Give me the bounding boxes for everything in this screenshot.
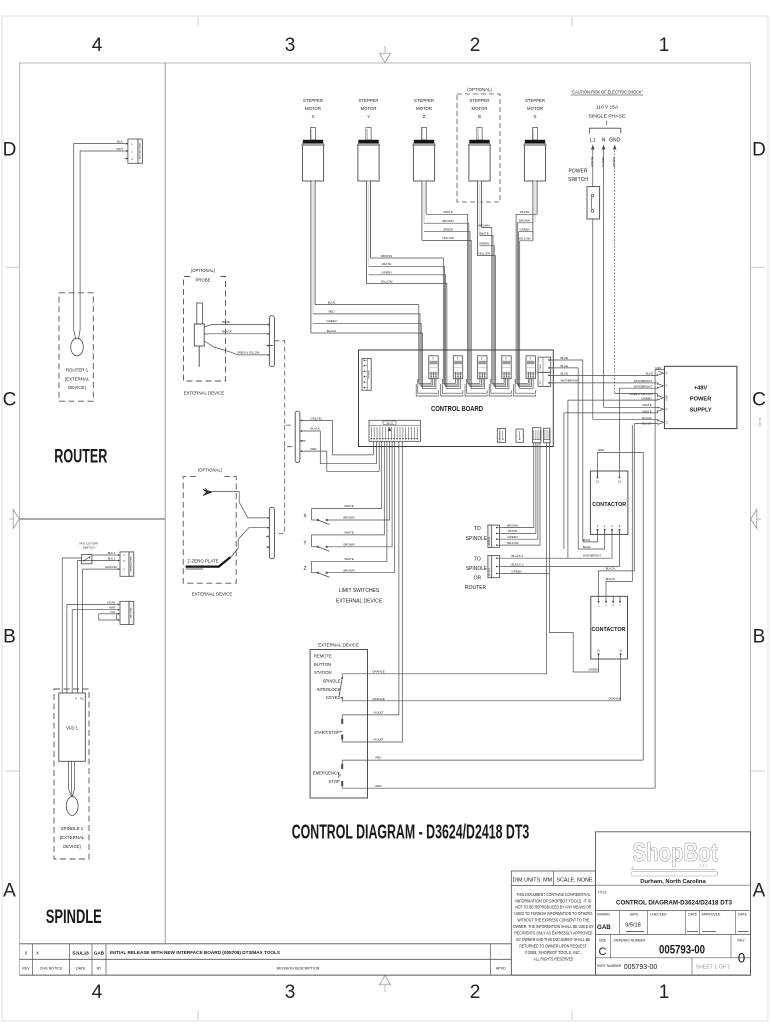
svg-text:NOT TO BE REPRODUCED BY ANY ME: NOT TO BE REPRODUCED BY ANY MEANS OR	[515, 905, 591, 910]
wire GREEN to PS GND	[568, 399, 658, 401]
wire BLACK PS to contactor2	[599, 424, 635, 597]
motor cable from stepper at x=479.5	[477, 181, 481, 256]
svg-text:Z: Z	[303, 566, 306, 572]
svg-text:EXTERNAL DEVICE: EXTERNAL DEVICE	[336, 599, 383, 605]
svg-text:USED TO FURNISH INFORMATION TO: USED TO FURNISH INFORMATION TO OTHERS	[514, 911, 592, 916]
connector J-to-spindle-router	[488, 555, 500, 577]
revision header row	[22, 967, 506, 971]
wire GREEN stepper fan	[424, 228, 470, 351]
probe optional label	[191, 268, 216, 283]
power supply pin +V	[658, 371, 669, 375]
wire BROWN stepper S fan	[517, 219, 533, 350]
svg-text:SPINDLE: SPINDLE	[466, 536, 488, 542]
zone tick marks bottom margin	[198, 1010, 572, 1020]
svg-text:GREEN: GREEN	[443, 228, 453, 232]
svg-text:RED: RED	[328, 310, 334, 314]
connector J-spindle-1 (3-pin)	[117, 552, 134, 576]
svg-text:Z: Z	[423, 114, 426, 119]
svg-text:BLACK: BLACK	[311, 426, 321, 430]
svg-text:STEPPER: STEPPER	[525, 98, 545, 103]
svg-text:POWER: POWER	[368, 370, 370, 379]
svg-text:BLUE: BLUE	[561, 371, 569, 375]
svg-text:WHITE: WHITE	[443, 210, 452, 214]
svg-text:TITLE: TITLE	[598, 890, 608, 894]
svg-text:ORANGE: ORANGE	[372, 697, 385, 701]
svg-text:BLK 2: BLK 2	[108, 557, 116, 561]
wire BLACK L1 to PS L1	[593, 419, 658, 421]
svg-text:RED: RED	[598, 448, 604, 452]
wire VIO/W	[67, 605, 117, 694]
wire YELLOW stepper fan	[422, 236, 471, 350]
svg-text:MOTOR: MOTOR	[416, 106, 432, 111]
svg-text:MOTOR: MOTOR	[527, 106, 543, 111]
limit switch Z	[303, 561, 329, 577]
svg-text:GREEN/YELLOW: GREEN/YELLOW	[629, 392, 652, 396]
wire BLACK-2 contactor1 out 4	[500, 530, 619, 567]
svg-text:YELLOW: YELLOW	[442, 236, 454, 240]
svg-text:SPINDLE: SPINDLE	[489, 536, 491, 545]
router 1 label	[65, 368, 90, 391]
svg-text:YELLOW: YELLOW	[380, 279, 392, 283]
svg-text:GREEN: GREEN	[612, 157, 616, 168]
stepper motor X	[302, 98, 324, 181]
wire WHITE N to PS N	[604, 407, 658, 408]
emergency stop switch	[339, 760, 343, 788]
svg-text:DATE: DATE	[630, 913, 640, 917]
alignment triangle right	[751, 510, 761, 529]
optional dashed box around stepper motor B	[457, 87, 500, 202]
to spindle or router label	[465, 556, 488, 591]
svg-text:BROWN: BROWN	[343, 568, 354, 572]
svg-text:1: 1	[659, 982, 670, 1003]
svg-text:2: 2	[470, 982, 481, 1003]
svg-text:4: 4	[92, 35, 103, 56]
svg-text:GREEN: GREEN	[519, 228, 529, 232]
svg-text:(OPTIONAL): (OPTIONAL)	[467, 87, 492, 92]
svg-text:BLK: BLK	[117, 139, 123, 143]
svg-text:BLACK: BLACK	[590, 157, 594, 167]
svg-text:BROWN: BROWN	[519, 219, 530, 223]
wire GROUND	[83, 569, 117, 693]
wire RED estop bottom	[342, 787, 655, 789]
svg-text:YELLOW: YELLOW	[478, 251, 490, 255]
svg-text:BLACK: BLACK	[327, 329, 337, 333]
svg-text:GREEN: GREEN	[479, 242, 489, 246]
wire GREEN stepper fan	[313, 319, 421, 350]
svg-text:DEVICE): DEVICE)	[63, 844, 81, 849]
wire WHITE stepper fan	[426, 210, 468, 350]
wire wrap under driver 2	[441, 378, 463, 396]
svg-text:SWITCH: SWITCH	[568, 177, 588, 183]
svg-text:WHT/BRIGHT: WHT/BRIGHT	[634, 384, 653, 388]
drawn/checked/approved row	[597, 911, 749, 935]
svg-text:STOP: STOP	[328, 779, 340, 784]
svg-text:KEYED: KEYED	[326, 695, 340, 700]
svg-text:SPINDLE PWR: SPINDLE PWR	[130, 556, 132, 571]
svg-text:BROWN: BROWN	[343, 543, 354, 547]
svg-text:GND: GND	[664, 395, 668, 401]
svg-text:EXTERNAL DEVICE: EXTERNAL DEVICE	[318, 643, 359, 648]
board connector J-power-left	[362, 358, 371, 390]
svg-text:(EXTERNAL: (EXTERNAL	[65, 376, 90, 381]
svg-text:RED: RED	[375, 784, 381, 788]
board connector J-input-bottom	[369, 420, 420, 441]
wire BLK2	[78, 561, 117, 693]
zone tick marks right margin	[751, 267, 766, 771]
wire VIOLET board to start/stop top	[342, 441, 399, 715]
svg-text:X: X	[36, 950, 39, 955]
svg-text:BLUE: BLUE	[561, 356, 569, 360]
svg-text:SCALE: NONE: SCALE: NONE	[556, 877, 593, 883]
svg-text:GAB: GAB	[597, 924, 611, 931]
wire BLUE contactor1 out 1	[583, 530, 598, 542]
wire WHT/BRIGHT contactor1 out 3	[500, 530, 612, 559]
wire aux board down	[549, 633, 573, 672]
router external device dashed box	[59, 293, 93, 401]
svg-text:GREEN: GREEN	[507, 535, 517, 539]
svg-text:2: 2	[470, 35, 481, 56]
wire WHITE 2 to PS N	[564, 410, 658, 549]
wire BROWN limit X	[327, 441, 390, 520]
svg-text:START/STOP: START/STOP	[314, 730, 340, 735]
driver connector 5	[526, 356, 535, 379]
wire wrap under driver 5	[514, 378, 536, 396]
svg-text:REV: REV	[22, 967, 30, 971]
svg-text:STEPPER: STEPPER	[414, 98, 434, 103]
svg-text:BLUE: BLUE	[646, 372, 654, 376]
svg-text:CONTACTOR: CONTACTOR	[592, 502, 626, 508]
wire GREEN contactor2	[573, 659, 598, 672]
z-zero plate symbol	[186, 557, 231, 569]
svg-text:CONTROL DIAGRAM - D3624/D2418: CONTROL DIAGRAM - D3624/D2418 DT3	[292, 822, 530, 844]
driver connector 4	[502, 356, 511, 379]
svg-text:ROUTER: ROUTER	[465, 585, 487, 591]
svg-text:OUT: OUT	[540, 379, 542, 384]
svg-text:WHT/BRIGHT: WHT/BRIGHT	[561, 379, 580, 383]
svg-text:INPUT: INPUT	[386, 423, 393, 425]
svg-text:WHITE: WHITE	[642, 403, 651, 407]
wire router BLK	[74, 144, 125, 291]
svg-text:B: B	[3, 627, 16, 648]
svg-text:(OPTIONAL): (OPTIONAL)	[191, 268, 216, 273]
wire router WHT	[80, 151, 124, 291]
zone tick marks left margin	[6, 267, 20, 771]
wire ORANGE board to interlock top	[342, 442, 546, 674]
svg-text:BLACK: BLACK	[606, 577, 616, 581]
caution label	[571, 89, 643, 95]
svg-text:HC: HC	[80, 698, 84, 701]
power supply pin GND	[658, 395, 669, 401]
power supply pin L1	[658, 420, 669, 424]
input connector bar J-input	[295, 411, 305, 462]
svg-text:110 V 15A: 110 V 15A	[596, 105, 619, 111]
svg-text:MOTOR: MOTOR	[305, 106, 321, 111]
svg-text:EMERGENCY: EMERGENCY	[313, 771, 340, 776]
svg-text:ROUTER: ROUTER	[54, 446, 107, 468]
svg-text:005793: 005793	[758, 417, 762, 426]
svg-text:A: A	[3, 881, 16, 902]
control board outline U1	[359, 350, 554, 447]
wire BROWN stepper fan	[478, 223, 491, 350]
svg-text:ShopBot: ShopBot	[633, 837, 718, 867]
wire YELLOW stepper S fan	[518, 237, 532, 350]
svg-text:0: 0	[738, 951, 746, 966]
svg-text:PWR: PWR	[540, 364, 542, 370]
to spindle label	[466, 526, 488, 542]
svg-text:YELLOW: YELLOW	[506, 541, 518, 545]
board connector J-aux	[544, 428, 550, 443]
contactor K2	[591, 596, 628, 659]
probe symbol	[194, 303, 204, 367]
dim units box	[511, 871, 595, 975]
alignment triangle left	[9, 510, 19, 529]
svg-text:B: B	[478, 114, 481, 119]
svg-text:CHECKED: CHECKED	[650, 913, 667, 917]
svg-text:BLUE: BLUE	[561, 364, 569, 368]
wire GREEN stepper fan	[479, 242, 494, 350]
svg-text:BUTTON: BUTTON	[314, 662, 331, 667]
svg-text:GREEN: GREEN	[326, 319, 336, 323]
svg-text:GREEN: GREEN	[588, 668, 598, 672]
svg-text:ALL RIGHTS RESERVED: ALL RIGHTS RESERVED	[533, 956, 573, 961]
wires from board input connector down-left	[374, 441, 380, 471]
power supply pin -V	[658, 384, 669, 388]
svg-text:AC OUT: AC OUT	[488, 567, 491, 575]
svg-text:GAB: GAB	[94, 950, 105, 955]
driver connector 2	[453, 356, 462, 379]
svg-text:SIZE: SIZE	[599, 938, 607, 942]
spindle 1 symbol (ellipse)	[66, 797, 78, 816]
contactor K1	[590, 471, 628, 534]
wire ORANGE contactor2 to interlock	[342, 659, 621, 701]
z-zero connector bar J-zzero	[266, 507, 274, 559]
wire VIOLET board to start/stop bottom	[342, 441, 402, 742]
svg-text:BROWN: BROWN	[381, 254, 392, 258]
svg-text:RED: RED	[375, 756, 381, 760]
wire RED estop top	[342, 759, 643, 761]
driver connector 3	[478, 356, 487, 379]
svg-text:DEVICE): DEVICE)	[68, 385, 86, 390]
VFD cutoff switch SW1	[82, 554, 92, 563]
svg-text:BY OWNER AND THIS DOCUMENT SHA: BY OWNER AND THIS DOCUMENT SHALL BE	[516, 937, 590, 942]
svg-text:BROWN: BROWN	[507, 523, 518, 527]
svg-text:DATE: DATE	[76, 967, 86, 971]
svg-text:STEPPER: STEPPER	[358, 98, 378, 103]
connector J-to-spindle	[488, 525, 500, 547]
svg-text:BLACK-2: BLACK-2	[511, 562, 523, 566]
svg-text:THIS DOCUMENT CONTAINS CONFIDE: THIS DOCUMENT CONTAINS CONFIDENTIAL	[516, 892, 591, 897]
wire BLUE board to down 2	[549, 364, 578, 549]
svg-text:GREEN: GREEN	[511, 569, 521, 573]
svg-text:INITIAL RELEASE WITH NEW INTER: INITIAL RELEASE WITH NEW INTERFACE BOARD…	[110, 950, 281, 956]
svg-text:BLACK: BLACK	[222, 329, 232, 333]
wire WHITE limit Z	[312, 441, 387, 561]
svg-text:Z-ZERO PLATE: Z-ZERO PLATE	[187, 559, 218, 564]
svg-text:REV: REV	[738, 938, 746, 942]
svg-text:MOTOR: MOTOR	[361, 106, 377, 111]
limit switch X	[303, 509, 329, 525]
svg-text:BLUE: BLUE	[328, 300, 336, 304]
wire GND green/yellow to PS GND	[615, 394, 658, 397]
wire YELLOW to spindle	[500, 442, 540, 545]
svg-text:3: 3	[285, 35, 296, 56]
motor cable from stepper at x=368.5	[366, 181, 370, 284]
remote button station box	[310, 650, 367, 799]
probe connector bar J-probe	[266, 316, 274, 367]
stepper motor S	[524, 98, 546, 181]
power bracket	[590, 128, 621, 133]
svg-text:DRAWING NUMBER: DRAWING NUMBER	[614, 938, 646, 942]
svg-text:LIMIT SWITCHES: LIMIT SWITCHES	[339, 588, 380, 594]
svg-text:(EXTERNAL: (EXTERNAL	[60, 835, 85, 840]
wire RED input bar	[303, 447, 379, 471]
svg-text:BLUE: BLUE	[222, 320, 230, 324]
svg-text:DATE: DATE	[688, 913, 698, 917]
power supply pin N	[658, 407, 669, 411]
svg-text:5JUL18: 5JUL18	[73, 950, 90, 955]
wire GR&YEL input bar	[303, 416, 374, 455]
svg-text:SPINDLE: SPINDLE	[46, 906, 102, 928]
wire GREEN stepper fan	[369, 271, 446, 350]
wire BLUE board to down	[549, 356, 583, 542]
svg-text:YELLOW: YELLOW	[518, 237, 530, 241]
wire WHITE stepper fan	[369, 262, 445, 350]
svg-text:SWITCH: SWITCH	[83, 546, 95, 550]
svg-text:SINGLE PHASE: SINGLE PHASE	[589, 113, 627, 119]
spindle wires VFD to motor	[69, 761, 75, 796]
zone tick marks top margin	[198, 17, 572, 27]
svg-text:D: D	[752, 140, 766, 161]
wire wrap under driver 4	[489, 378, 511, 396]
wire GREEN to spindle	[500, 442, 538, 539]
svg-text:WHT/BRIGHT: WHT/BRIGHT	[583, 553, 602, 557]
title block frame	[596, 832, 751, 975]
svg-text:PART NUMBER: PART NUMBER	[597, 964, 622, 968]
probe external device dashed box	[184, 277, 226, 382]
svg-text:CONTROL BOARD: CONTROL BOARD	[431, 404, 484, 413]
svg-text:3: 3	[285, 982, 296, 1003]
router/spindle section divider	[20, 518, 166, 520]
svg-text:X: X	[312, 114, 315, 119]
svg-text:1: 1	[659, 35, 670, 56]
motor cable from stepper at x=424	[422, 181, 426, 240]
svg-text:VIOLET: VIOLET	[373, 711, 384, 715]
wire YELLOW stepper fan	[477, 251, 495, 350]
svg-text:INTERLOCK: INTERLOCK	[317, 687, 341, 692]
svg-text:(OPTIONAL): (OPTIONAL)	[198, 468, 223, 473]
wire RED contactor1 coil	[598, 448, 644, 760]
wire BROWN stepper fan	[371, 254, 444, 350]
svg-text:005793-00: 005793-00	[624, 964, 658, 971]
svg-text:N: N	[602, 138, 606, 144]
connector J-spindle-2 (4-pin)	[117, 601, 134, 624]
title field	[598, 890, 733, 906]
wire BROWN limit Y	[327, 441, 392, 547]
limit switch Y	[303, 535, 329, 551]
svg-text:WHITE: WHITE	[344, 557, 353, 561]
wire GREEN stepper S fan	[519, 228, 533, 351]
svg-text:RETURNED TO OWNER UPON REQUES: RETURNED TO OWNER UPON REQUEST.	[519, 943, 587, 948]
svg-text:ORANGE: ORANGE	[372, 669, 385, 673]
wire BLUE board to PS +V	[549, 371, 658, 375]
svg-text:C: C	[3, 390, 17, 411]
svg-text:RECIPIENTS ONLY AS EXPRESSLY A: RECIPIENTS ONLY AS EXPRESSLY APPROVED	[514, 931, 592, 936]
svg-text:SUPPLY: SUPPLY	[689, 408, 711, 414]
svg-text:BROWN: BROWN	[442, 219, 453, 223]
svg-text:BLUE: BLUE	[583, 545, 591, 549]
remote button station label	[314, 654, 332, 676]
svg-text:PROBE: PROBE	[195, 278, 210, 283]
svg-text:WHITE: WHITE	[520, 210, 529, 214]
driver connector 1	[429, 356, 438, 379]
svg-text:Durham, North Carolina: Durham, North Carolina	[640, 879, 706, 885]
svg-text:MOTOR: MOTOR	[472, 106, 488, 111]
svg-text:+48V: +48V	[694, 386, 708, 392]
svg-text:INFORMATION OF SHOPBOT TOOLS.: INFORMATION OF SHOPBOT TOOLS. IT IS	[515, 898, 591, 903]
power switch SW-main	[587, 187, 600, 219]
svg-text:005793-00: 005793-00	[659, 943, 705, 957]
svg-text:ORANGE: ORANGE	[608, 697, 621, 701]
wire wrap under driver 1	[416, 378, 438, 396]
VFD cutoff switch label	[79, 542, 98, 550]
svg-text:A: A	[753, 881, 766, 902]
wire BLK1 via cutoff switch	[62, 555, 116, 693]
wire L1 below switch	[592, 219, 594, 419]
svg-text:POWER: POWER	[569, 169, 588, 175]
wire BLACK input bar	[303, 426, 377, 463]
svg-text:BROWN: BROWN	[478, 223, 489, 227]
svg-text:GND: GND	[655, 366, 661, 370]
svg-text:BROWN: BROWN	[343, 516, 354, 520]
svg-text:WHT: WHT	[116, 147, 123, 151]
wire probe GREEN&YELLOW	[204, 341, 266, 355]
motor cable from stepper at x=313	[311, 181, 315, 333]
board connector J-relay-1	[497, 429, 505, 443]
stepper motor B	[468, 98, 490, 181]
wire L1 BLACK	[590, 145, 594, 187]
VFD 1 box	[59, 693, 86, 761]
router 1 bit symbol (ellipse)	[71, 338, 84, 356]
svg-text:STATION: STATION	[314, 670, 332, 675]
wire BLACK 2 to PS L1	[634, 422, 657, 425]
stepper motor Z	[413, 98, 435, 181]
confidential text block	[513, 892, 594, 962]
board connector J-relay-2	[516, 429, 523, 442]
svg-text:WHITE: WHITE	[382, 262, 391, 266]
wire WHT	[72, 610, 117, 693]
svg-text:BLACK: BLACK	[606, 567, 616, 571]
wire WHT/BRIGHT board to PS -V	[549, 379, 658, 385]
svg-text:CONTROL DIAGRAM-D3624/D2418 DT: CONTROL DIAGRAM-D3624/D2418 DT3	[616, 900, 732, 907]
svg-text:B: B	[753, 627, 766, 648]
ShopBot logo	[631, 837, 717, 876]
svg-text:OWNER. THE INFORMATION SHALL: OWNER. THE INFORMATION SHALL BE USED BY	[513, 924, 594, 929]
svg-text:CHG NOTICE: CHG NOTICE	[40, 967, 63, 971]
svg-text:GREEN & YELLOW: GREEN & YELLOW	[237, 352, 260, 355]
svg-text:VFD 1: VFD 1	[66, 726, 79, 731]
svg-text:STEPPER: STEPPER	[303, 98, 323, 103]
jumper loop pins 3-4	[99, 614, 117, 620]
wire contactor1 pin to PS -V	[619, 387, 657, 471]
wire WHITE stepper S fan	[516, 210, 537, 350]
emergency stop label	[313, 771, 340, 784]
board connector J-spindle-out	[532, 428, 541, 443]
motor cable from stepper S	[533, 181, 537, 241]
wire WHITE to spindle	[500, 442, 536, 533]
stepper motor Y	[357, 98, 379, 181]
wire YELLOW stepper fan	[366, 279, 447, 350]
svg-text:C: C	[599, 946, 607, 958]
